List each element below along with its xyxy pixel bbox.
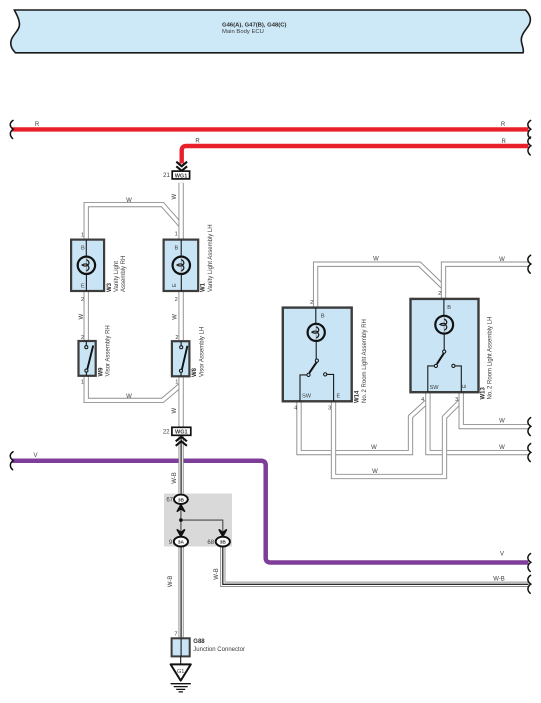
- svg-text:W: W: [126, 394, 132, 400]
- svg-text:W-B: W-B: [493, 577, 505, 583]
- svg-text:W1: W1: [201, 282, 207, 292]
- svg-text:W9: W9: [98, 367, 104, 377]
- wire W switch net: W14 pin 4 down, right, up diagonal to W13 pin 4: [299, 401, 428, 453]
- label W3 Vanity Light Assembly RH: [107, 256, 127, 292]
- svg-text:WG1: WG1: [175, 173, 188, 179]
- svg-text:Main Body ECU: Main Body ECU: [222, 29, 264, 35]
- svg-text:W13: W13: [480, 387, 486, 400]
- break symbol right, W switch: [528, 444, 531, 462]
- wire W room-light feed: W13 pin 2 riser to right edge: [444, 264, 529, 300]
- room light W13 box: [411, 299, 479, 392]
- svg-text:W: W: [372, 469, 378, 475]
- svg-text:E: E: [462, 384, 468, 388]
- svg-text:E: E: [172, 283, 178, 287]
- junction node dot: [179, 518, 183, 522]
- svg-text:22: 22: [163, 430, 170, 436]
- wire W main: 21 WG1 to W1 pin 1: [178, 183, 183, 241]
- svg-text:W: W: [373, 256, 379, 262]
- svg-text:7: 7: [174, 632, 177, 638]
- wire W earth net: W14 pin 3 down, right, up diagonal to W13 pin 3: [334, 401, 462, 477]
- svg-text:No. 2 Room Light Assembly LH: No. 2 Room Light Assembly LH: [488, 317, 494, 400]
- svg-text:G46(A), G47(B), G48(C): G46(A), G47(B), G48(C): [222, 22, 287, 28]
- svg-text:Junction Connector: Junction Connector: [193, 647, 245, 653]
- svg-text:W: W: [79, 313, 85, 319]
- svg-text:G88: G88: [193, 639, 205, 645]
- break symbol left, V: [10, 452, 13, 470]
- svg-text:2: 2: [81, 335, 84, 341]
- svg-text:No. 2 Room Light Assembly RH: No. 2 Room Light Assembly RH: [362, 319, 368, 403]
- svg-text:21: 21: [163, 173, 170, 179]
- svg-text:B: B: [447, 305, 451, 311]
- break symbol right, W-B: [528, 575, 531, 593]
- break symbol right, W room feed: [528, 255, 531, 273]
- connector oval 67 3B: [166, 495, 187, 504]
- wire W main: W8 pin 1 to 22 WG1: [178, 376, 183, 428]
- svg-text:1: 1: [175, 231, 178, 237]
- wire W: W9 pin 1 down, right, diagonal to main: [86, 375, 181, 400]
- svg-text:V: V: [33, 453, 37, 459]
- svg-text:3A: 3A: [178, 540, 185, 546]
- svg-text:R: R: [502, 139, 507, 145]
- wire R upper (red power feed): [12, 127, 529, 131]
- svg-text:68: 68: [207, 540, 214, 546]
- svg-text:Visor Assembly RH: Visor Assembly RH: [106, 325, 112, 376]
- svg-text:E: E: [81, 284, 85, 290]
- svg-text:Vanity Light Assembly LH: Vanity Light Assembly LH: [208, 224, 214, 292]
- break symbol right, red lower: [528, 137, 531, 155]
- ECU banner G46/G47/G48 Main Body ECU: [11, 10, 531, 53]
- svg-text:1: 1: [81, 233, 84, 239]
- junction connector G88: [172, 638, 245, 656]
- lamp W3: [78, 257, 95, 274]
- connector box 21 WG1: [163, 171, 189, 179]
- label W14 No.2 Room Light Assembly RH: [355, 319, 368, 403]
- svg-text:SW: SW: [430, 385, 440, 391]
- svg-text:3: 3: [328, 406, 331, 412]
- svg-text:R: R: [501, 122, 506, 128]
- svg-text:E: E: [337, 394, 341, 400]
- arrow out of 22 WG1 (double chevron up): [176, 437, 187, 446]
- svg-text:Vanity Light: Vanity Light: [114, 261, 120, 292]
- svg-text:R: R: [35, 122, 40, 128]
- wire W-B: 68 3B down and right to edge: [223, 546, 529, 584]
- svg-text:1: 1: [175, 380, 178, 386]
- svg-text:W: W: [499, 257, 505, 263]
- switch W14: [315, 359, 318, 362]
- junction block shading: [164, 494, 232, 547]
- svg-text:V: V: [500, 552, 504, 558]
- arrow down into 9 3A: [177, 530, 184, 537]
- svg-text:W-B: W-B: [172, 472, 178, 484]
- svg-text:B: B: [81, 245, 85, 251]
- svg-text:4: 4: [294, 406, 297, 412]
- label W1 Vanity Light Assembly LH: [201, 224, 214, 292]
- svg-text:2: 2: [438, 291, 441, 297]
- ground symbol hatching: [171, 684, 191, 692]
- wire W-B main: 22 WG1 to junction 67 3B (crosses purple): [178, 436, 183, 495]
- svg-text:W-B: W-B: [168, 576, 174, 588]
- arrow down into 68 3B: [219, 530, 226, 537]
- visor switch W8 box: [172, 341, 190, 376]
- svg-text:4: 4: [421, 397, 424, 403]
- junction internal wiring: [181, 504, 223, 536]
- svg-text:3B: 3B: [220, 540, 227, 546]
- label W13 No.2 Room Light Assembly LH: [480, 317, 493, 400]
- wire W branch: main to W3 pin 1 (top left loop): [86, 205, 181, 241]
- wire W room-light feed: W14 pin 2 riser, right, diagonal into W13 riser: [316, 264, 444, 308]
- svg-text:G1: G1: [177, 669, 184, 675]
- svg-text:67: 67: [166, 498, 173, 504]
- svg-text:WG1: WG1: [175, 430, 188, 436]
- svg-text:W3: W3: [107, 282, 113, 292]
- lamp W14: [308, 324, 325, 341]
- svg-text:2: 2: [175, 335, 178, 341]
- wire W earth net: W13 pin 3 down, right to edge: [461, 391, 528, 426]
- svg-text:2: 2: [175, 297, 178, 303]
- wire W switch net: W13 pin 4 down, right to edge: [428, 391, 529, 452]
- svg-text:3: 3: [455, 397, 458, 403]
- svg-text:R: R: [195, 139, 200, 145]
- lamp W13: [435, 316, 453, 334]
- svg-text:B: B: [175, 245, 179, 251]
- svg-text:W14: W14: [355, 390, 361, 403]
- wire W: W3 pin 2 to W9 pin 2: [84, 290, 89, 342]
- svg-text:W: W: [172, 194, 178, 200]
- wire W-B: 9 3A down to G88 pin 7: [178, 546, 183, 639]
- svg-text:2: 2: [81, 297, 84, 303]
- arrow into connector 21 (double chevron down): [176, 162, 187, 171]
- room light W14 box: [283, 308, 352, 402]
- switch W13: [443, 350, 446, 353]
- label W8 Visor Assembly LH: [192, 327, 205, 377]
- svg-text:B: B: [321, 314, 325, 320]
- connector oval 9 3A: [169, 537, 188, 547]
- break symbol right, V: [528, 554, 531, 572]
- vanity light W1 box: [164, 240, 199, 291]
- svg-text:W: W: [499, 418, 505, 424]
- connector oval 68 3B: [207, 537, 229, 547]
- break symbol right, W earth: [528, 418, 531, 436]
- ground G1 triangle: [171, 656, 191, 680]
- svg-text:W: W: [371, 445, 377, 451]
- connector box 22 WG1: [163, 427, 191, 435]
- vanity light W3 box: [71, 240, 104, 291]
- arrow up into 67 3B: [177, 505, 184, 512]
- svg-text:W: W: [172, 407, 178, 413]
- break symbol right, red upper: [528, 120, 531, 138]
- svg-text:W: W: [172, 314, 178, 320]
- wire W main: W1 pin 2 to W8 pin 2: [178, 290, 183, 342]
- svg-text:W: W: [499, 445, 505, 451]
- svg-text:W8: W8: [192, 367, 198, 377]
- svg-text:2: 2: [310, 300, 313, 306]
- visor switch W9 box: [79, 341, 96, 376]
- svg-text:W-B: W-B: [214, 568, 220, 580]
- svg-text:SW: SW: [302, 394, 312, 400]
- svg-text:Assembly RH: Assembly RH: [121, 256, 127, 292]
- svg-text:3B: 3B: [178, 497, 185, 503]
- break symbol left, red wire: [10, 120, 13, 138]
- lamp W1: [173, 257, 190, 274]
- svg-text:W: W: [126, 198, 132, 204]
- label W9 Visor Assembly RH: [98, 325, 111, 376]
- svg-text:1: 1: [81, 380, 84, 386]
- wire R lower with bend down to connector 21: [182, 146, 529, 164]
- svg-text:Visor Assembly LH: Visor Assembly LH: [199, 327, 205, 377]
- purple wire V (left horizontal, down, right to edge): [12, 461, 529, 563]
